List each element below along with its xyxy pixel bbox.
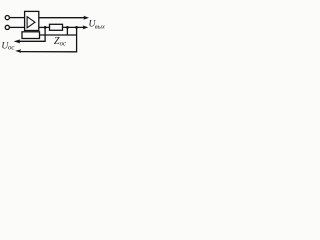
impedance Z_oc series box bbox=[50, 24, 63, 30]
wire output lower conductor left segment bbox=[39, 26, 50, 28]
wire from node B down and bottom return to U_oc lower lead bbox=[20, 28, 77, 52]
arrowhead U_vyh lower bbox=[83, 25, 89, 29]
node A junction dot bbox=[44, 26, 47, 29]
node C junction dot bbox=[66, 26, 69, 29]
input terminal circle top bbox=[5, 16, 9, 20]
wire jumper from feedback box across to right vertical bbox=[40, 34, 77, 36]
amplifier box U1 bbox=[25, 11, 39, 30]
wire top input bbox=[9, 17, 25, 19]
wire from node A down to U_oc upper lead bbox=[18, 28, 46, 41]
label U_vyh bbox=[89, 18, 106, 30]
label Z_oc bbox=[54, 36, 66, 48]
wire output lower conductor right segment bbox=[62, 26, 84, 28]
arrowhead U_oc lower bbox=[15, 49, 21, 53]
arrowhead U_oc upper bbox=[14, 39, 21, 43]
amplifier triangle symbol bbox=[27, 17, 35, 28]
svg-text:ос: ос bbox=[60, 41, 66, 48]
arrowhead U_vyh upper bbox=[83, 16, 89, 20]
wire from node C down to jumper bbox=[66, 28, 68, 35]
feedback network box bbox=[22, 32, 40, 39]
svg-text:ос: ос bbox=[8, 44, 14, 51]
svg-text:вых: вых bbox=[95, 24, 105, 31]
wire bottom input bbox=[9, 26, 25, 28]
wire output upper conductor bbox=[39, 17, 85, 19]
label U_oc bbox=[1, 41, 14, 52]
node B junction dot bbox=[75, 26, 78, 29]
input terminal circle bottom bbox=[5, 25, 9, 29]
